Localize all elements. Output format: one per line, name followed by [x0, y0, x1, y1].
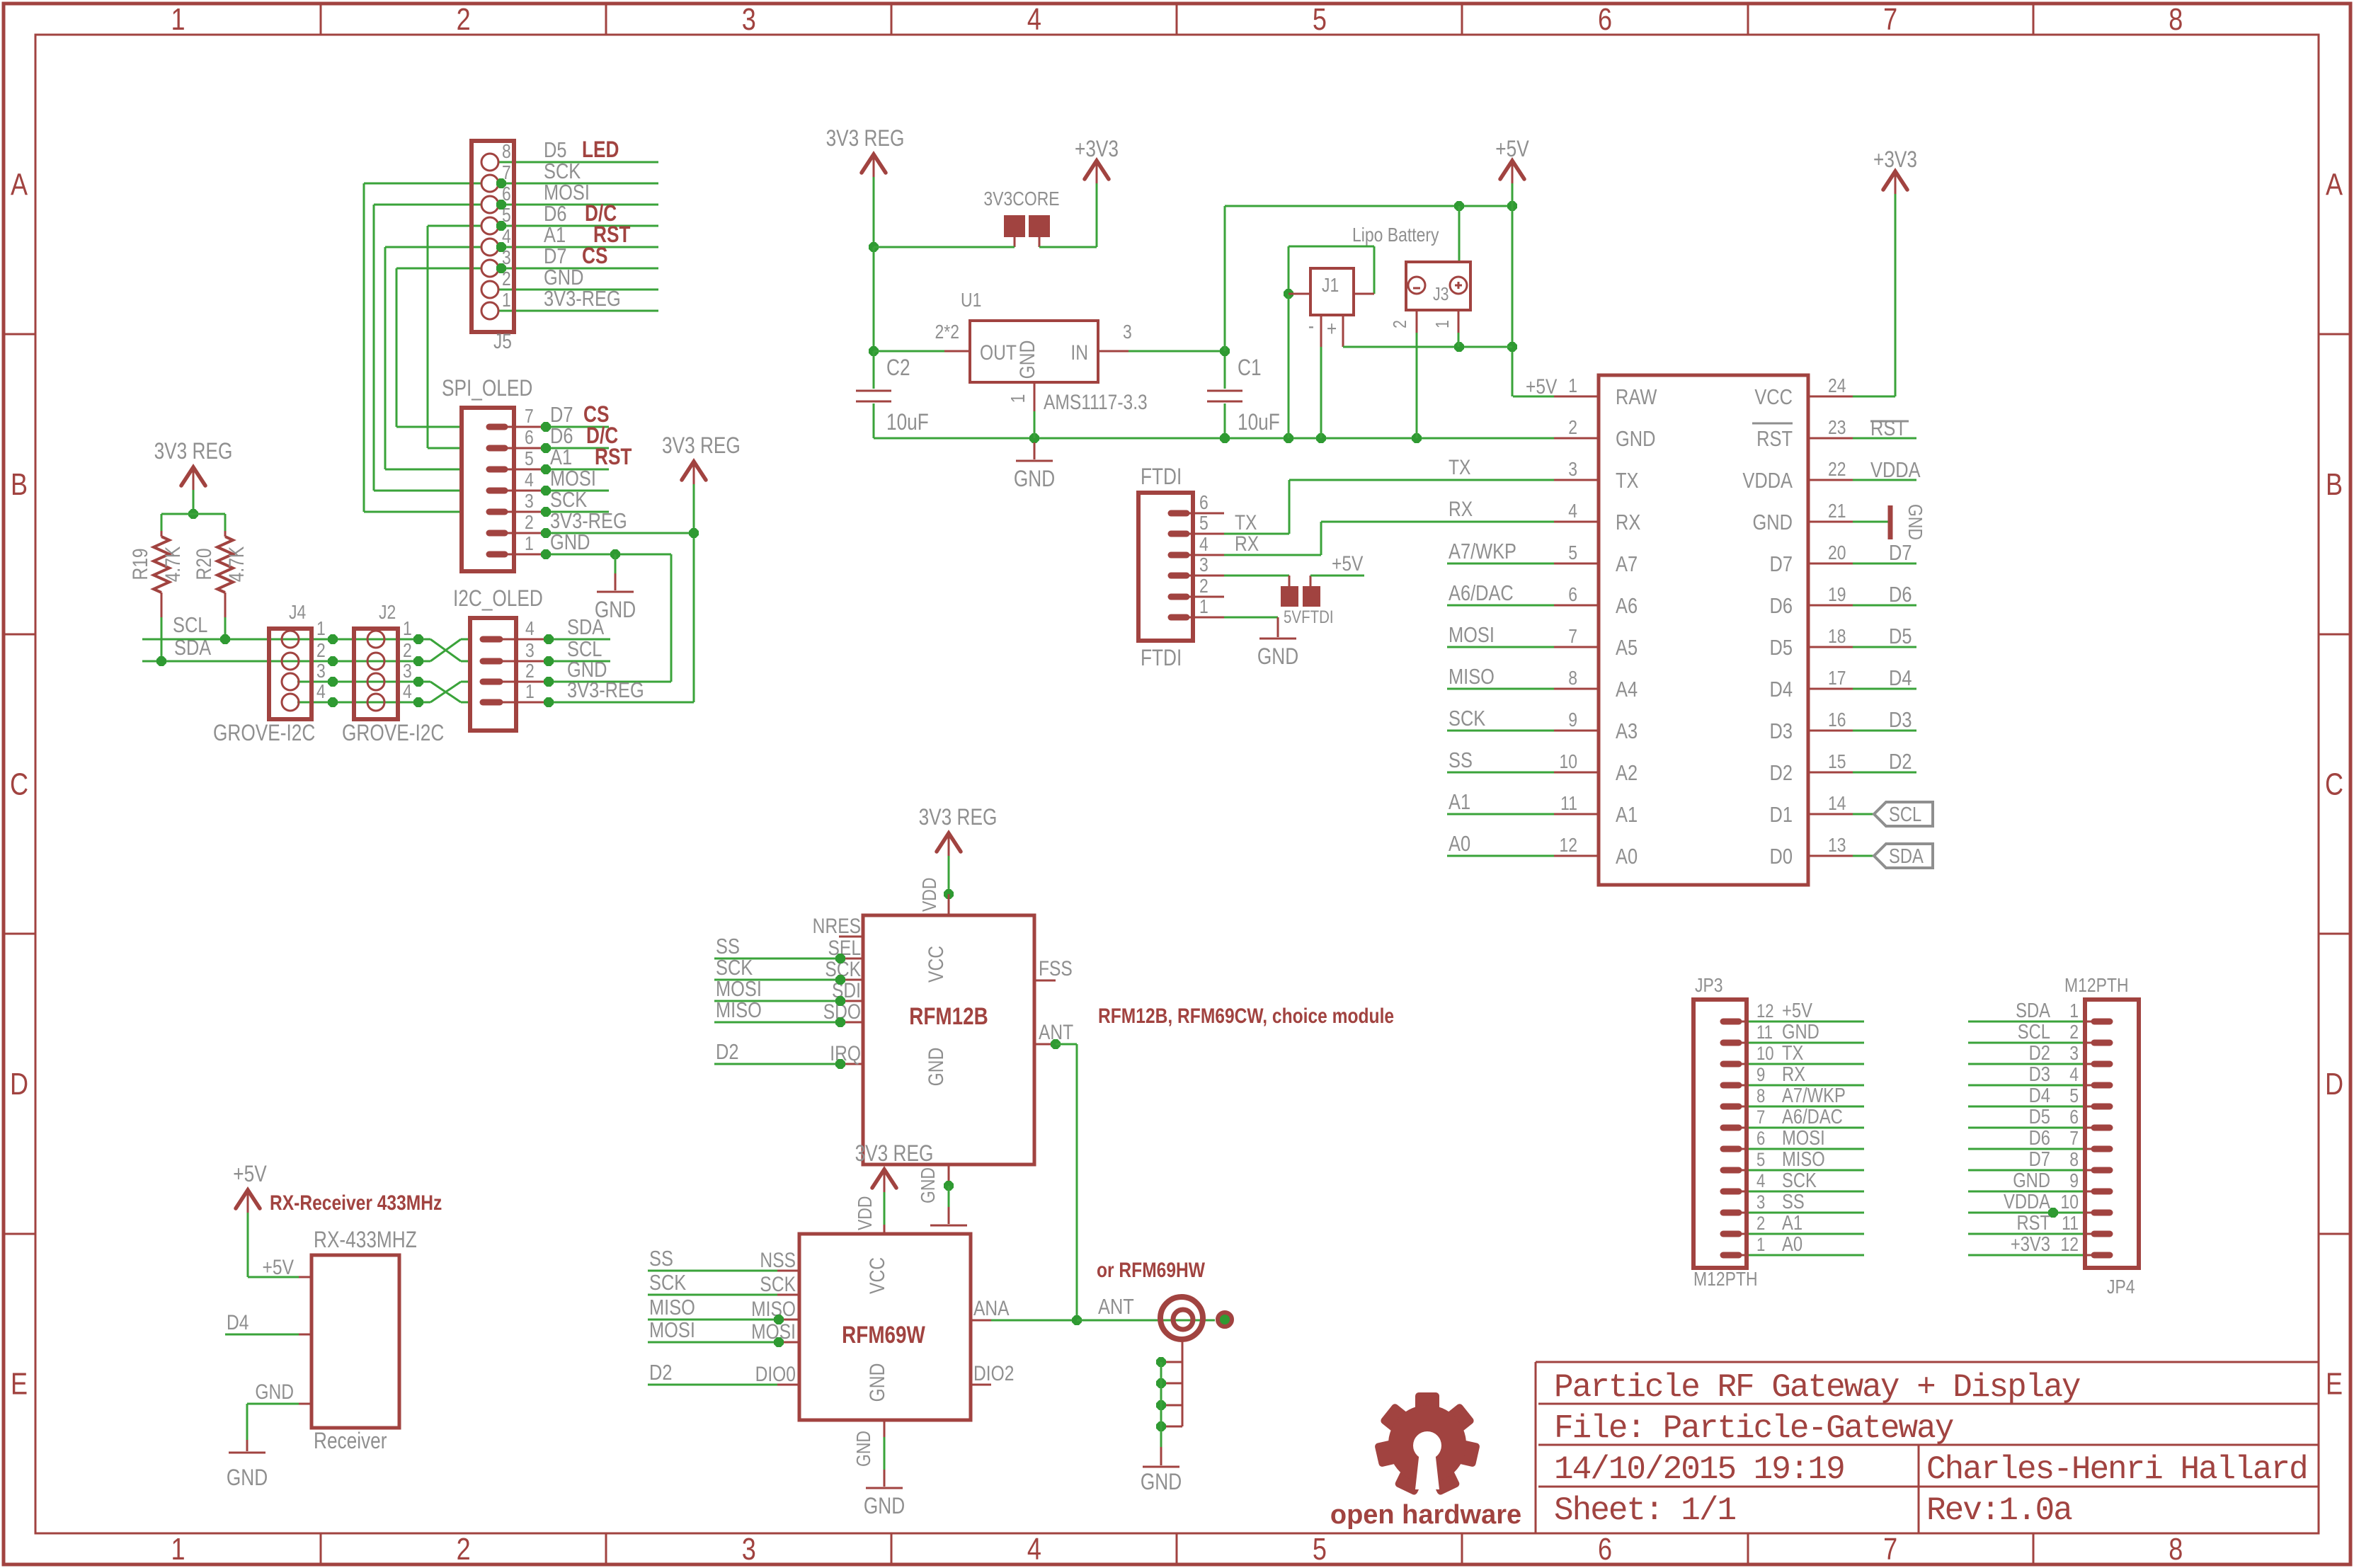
svg-text:-: - [1308, 314, 1314, 338]
svg-text:B: B [2326, 467, 2343, 502]
svg-text:5: 5 [1568, 542, 1577, 564]
svg-text:RX: RX [1616, 510, 1640, 535]
svg-text:Rev:1.0a: Rev:1.0a [1926, 1492, 2072, 1529]
svg-text:C1: C1 [1238, 356, 1262, 381]
svg-text:VDD: VDD [855, 1196, 876, 1230]
svg-text:GND: GND [1782, 1020, 1819, 1043]
svg-text:6: 6 [1199, 492, 1209, 514]
svg-text:D5: D5 [1770, 636, 1793, 660]
svg-text:SCL: SCL [2018, 1020, 2050, 1043]
svg-text:RX: RX [1235, 532, 1259, 556]
svg-text:J5: J5 [493, 329, 512, 353]
svg-text:6: 6 [525, 427, 534, 449]
svg-text:2: 2 [1390, 320, 1411, 328]
svg-text:DIO2: DIO2 [973, 1361, 1014, 1385]
svg-text:10: 10 [1559, 751, 1577, 773]
svg-text:RX: RX [1449, 497, 1473, 521]
svg-text:21: 21 [1828, 500, 1846, 522]
svg-text:GND: GND [1014, 467, 1055, 492]
svg-text:4: 4 [2069, 1064, 2079, 1086]
svg-text:Charles-Henri Hallard: Charles-Henri Hallard [1926, 1451, 2307, 1488]
svg-text:+5V: +5V [1526, 374, 1558, 399]
svg-text:3V3CORE: 3V3CORE [983, 188, 1059, 210]
svg-text:AMS1117-3.3: AMS1117-3.3 [1044, 390, 1148, 414]
svg-text:22: 22 [1828, 459, 1846, 481]
svg-text:RST: RST [1870, 416, 1907, 441]
svg-text:D4: D4 [1770, 677, 1793, 702]
svg-text:VCC: VCC [924, 946, 948, 983]
svg-text:1: 1 [525, 681, 535, 703]
svg-text:DIO0: DIO0 [755, 1362, 796, 1386]
svg-text:8: 8 [1756, 1086, 1765, 1107]
svg-text:A4: A4 [1616, 677, 1638, 702]
svg-text:1: 1 [171, 2, 185, 37]
svg-text:U1: U1 [961, 290, 981, 311]
svg-text:7: 7 [1883, 2, 1897, 37]
svg-text:7: 7 [1883, 1532, 1897, 1567]
svg-text:3V3-REG: 3V3-REG [544, 287, 621, 311]
svg-text:D1: D1 [1770, 803, 1793, 828]
svg-text:8: 8 [1568, 668, 1577, 689]
svg-text:D0: D0 [1770, 845, 1793, 869]
svg-text:D6: D6 [1770, 594, 1793, 619]
svg-text:File: Particle-Gateway: File: Particle-Gateway [1554, 1410, 1954, 1447]
svg-text:SDA: SDA [567, 615, 604, 640]
svg-text:GND: GND [865, 1363, 889, 1402]
svg-text:7: 7 [1568, 626, 1577, 648]
svg-text:24: 24 [1828, 375, 1846, 397]
svg-text:11: 11 [1756, 1022, 1773, 1043]
svg-text:SCK: SCK [649, 1271, 686, 1295]
svg-text:+5V: +5V [233, 1162, 267, 1187]
svg-text:M12PTH: M12PTH [1693, 1269, 1758, 1291]
svg-text:10: 10 [1756, 1043, 1774, 1065]
svg-text:5: 5 [1756, 1150, 1765, 1171]
svg-text:RX-Receiver 433MHz: RX-Receiver 433MHz [270, 1191, 442, 1215]
svg-text:SCK: SCK [1782, 1169, 1817, 1192]
svg-text:Lipo Battery: Lipo Battery [1352, 224, 1439, 246]
svg-text:7: 7 [1756, 1107, 1765, 1128]
svg-text:D: D [10, 1067, 28, 1101]
svg-text:1: 1 [403, 618, 412, 640]
svg-text:VCC: VCC [1754, 385, 1793, 410]
svg-text:GND: GND [255, 1380, 294, 1404]
svg-text:J1: J1 [1322, 275, 1339, 297]
svg-text:3: 3 [525, 640, 535, 662]
svg-text:RFM12B, RFM69CW, choice module: RFM12B, RFM69CW, choice module [1098, 1004, 1394, 1028]
svg-text:A6/DAC: A6/DAC [1782, 1105, 1843, 1128]
svg-text:11: 11 [1560, 793, 1577, 815]
svg-text:MISO: MISO [1782, 1148, 1825, 1171]
svg-text:Receiver: Receiver [314, 1429, 387, 1454]
svg-text:RST: RST [1756, 427, 1793, 452]
svg-text:I2C_OLED: I2C_OLED [453, 587, 543, 612]
svg-text:2: 2 [525, 512, 534, 534]
svg-text:1: 1 [525, 533, 534, 555]
svg-text:GND: GND [550, 530, 590, 555]
svg-text:3V3-REG: 3V3-REG [567, 678, 644, 703]
svg-text:3V3 REG: 3V3 REG [826, 127, 905, 151]
svg-text:12: 12 [2060, 1234, 2079, 1256]
svg-text:VDD: VDD [919, 878, 941, 912]
svg-text:LED: LED [582, 138, 619, 163]
svg-text:23: 23 [1828, 417, 1846, 439]
svg-text:E: E [2326, 1366, 2343, 1401]
svg-text:GND: GND [1141, 1470, 1182, 1495]
svg-text:3V3 REG: 3V3 REG [154, 440, 233, 464]
svg-text:VDDA: VDDA [2004, 1190, 2050, 1213]
svg-text:3: 3 [742, 1532, 756, 1567]
svg-text:A1: A1 [1616, 803, 1638, 828]
svg-text:1: 1 [1568, 375, 1577, 397]
svg-text:12: 12 [1756, 1001, 1774, 1022]
svg-text:GROVE-I2C: GROVE-I2C [342, 721, 444, 746]
svg-text:A0: A0 [1782, 1232, 1802, 1256]
svg-text:7: 7 [2069, 1128, 2079, 1150]
svg-text:4: 4 [1027, 1532, 1041, 1567]
svg-text:D6: D6 [2029, 1126, 2050, 1150]
svg-text:A3: A3 [1616, 719, 1638, 744]
svg-text:D3: D3 [1770, 719, 1793, 744]
svg-text:5: 5 [2069, 1085, 2079, 1107]
svg-text:10uF: 10uF [886, 411, 929, 435]
svg-text:TX: TX [1616, 469, 1639, 493]
svg-text:2: 2 [1199, 576, 1209, 597]
svg-text:1: 1 [1756, 1235, 1765, 1256]
svg-text:MOSI: MOSI [751, 1320, 796, 1344]
svg-text:NRES: NRES [813, 914, 861, 938]
svg-text:9: 9 [1568, 709, 1577, 731]
svg-text:10: 10 [2060, 1191, 2079, 1213]
svg-text:D7: D7 [1770, 552, 1793, 577]
svg-text:3V3 REG: 3V3 REG [919, 806, 998, 830]
svg-text:RX-433MHZ: RX-433MHZ [314, 1228, 417, 1253]
svg-text:GROVE-I2C: GROVE-I2C [213, 721, 315, 746]
svg-text:GND: GND [2013, 1169, 2050, 1192]
svg-text:C: C [2325, 767, 2343, 801]
svg-text:1: 1 [1199, 596, 1209, 618]
svg-text:D7: D7 [1889, 541, 1912, 566]
svg-text:+5V: +5V [263, 1255, 295, 1279]
svg-text:5: 5 [1313, 1532, 1327, 1567]
svg-text:A0: A0 [1449, 832, 1470, 857]
svg-text:+: + [1327, 316, 1337, 341]
svg-text:D2: D2 [649, 1361, 672, 1385]
svg-text:2: 2 [316, 640, 326, 662]
svg-text:MOSI: MOSI [1782, 1126, 1825, 1150]
svg-text:GND: GND [1015, 341, 1039, 379]
svg-text:D4: D4 [1889, 666, 1912, 691]
svg-text:or RFM69HW: or RFM69HW [1097, 1258, 1205, 1282]
svg-text:FTDI: FTDI [1141, 465, 1182, 490]
svg-text:D4: D4 [227, 1310, 248, 1334]
svg-text:FSS: FSS [1039, 956, 1073, 980]
svg-text:A2: A2 [1616, 761, 1638, 786]
svg-text:9: 9 [2069, 1170, 2079, 1192]
svg-text:19: 19 [1828, 584, 1846, 606]
svg-text:D2: D2 [1889, 750, 1912, 774]
svg-text:J2: J2 [379, 602, 396, 624]
svg-text:MISO: MISO [1449, 665, 1495, 689]
svg-text:E: E [11, 1366, 28, 1401]
svg-text:SDA: SDA [1889, 845, 1924, 868]
svg-text:1: 1 [1432, 320, 1453, 328]
svg-text:13: 13 [1828, 835, 1846, 857]
svg-text:2*2: 2*2 [935, 321, 959, 343]
svg-text:D2: D2 [716, 1040, 738, 1065]
svg-text:1: 1 [502, 290, 511, 311]
svg-text:D4: D4 [2029, 1084, 2050, 1107]
svg-text:D3: D3 [2029, 1063, 2050, 1086]
svg-text:J4: J4 [289, 602, 306, 624]
svg-text:14/10/2015 19:19: 14/10/2015 19:19 [1554, 1451, 1844, 1488]
svg-text:2: 2 [1568, 417, 1577, 439]
svg-text:8: 8 [2169, 2, 2183, 37]
svg-text:18: 18 [1828, 626, 1846, 648]
svg-text:6: 6 [1568, 584, 1577, 606]
svg-text:R19: R19 [128, 548, 152, 580]
svg-text:3: 3 [1199, 554, 1209, 576]
svg-text:20: 20 [1828, 542, 1846, 564]
svg-text:ANT: ANT [1098, 1295, 1134, 1320]
svg-text:5: 5 [1313, 2, 1327, 37]
svg-text:11: 11 [2062, 1213, 2079, 1235]
svg-text:MOSI: MOSI [649, 1318, 695, 1343]
svg-text:SS: SS [649, 1247, 673, 1271]
svg-text:SS: SS [1782, 1190, 1805, 1213]
svg-text:A7/WKP: A7/WKP [1782, 1084, 1846, 1107]
svg-text:6: 6 [1598, 1532, 1612, 1567]
svg-text:4: 4 [1568, 500, 1577, 522]
svg-text:MISO: MISO [716, 998, 762, 1023]
svg-text:MISO: MISO [649, 1295, 695, 1320]
svg-text:3V3 REG: 3V3 REG [855, 1142, 934, 1167]
svg-text:1: 1 [316, 618, 326, 640]
svg-text:J3: J3 [1433, 284, 1449, 305]
svg-text:A5: A5 [1616, 636, 1638, 660]
svg-text:SCK: SCK [1449, 706, 1485, 731]
svg-text:4: 4 [1027, 2, 1041, 37]
svg-text:SCL: SCL [1889, 803, 1921, 826]
svg-text:D5: D5 [2029, 1105, 2050, 1128]
svg-text:A1: A1 [1449, 790, 1470, 815]
svg-text:3: 3 [1123, 321, 1132, 343]
svg-text:7: 7 [525, 406, 534, 428]
svg-text:2: 2 [457, 1532, 471, 1567]
svg-text:4.7K: 4.7K [161, 546, 185, 583]
svg-text:Particle RF Gateway + Display: Particle RF Gateway + Display [1554, 1369, 2081, 1406]
svg-text:GND: GND [1753, 510, 1793, 535]
svg-text:+5V: +5V [1332, 551, 1364, 576]
svg-text:9: 9 [1756, 1065, 1765, 1086]
svg-text:A6: A6 [1616, 594, 1638, 619]
svg-text:4: 4 [1756, 1171, 1765, 1192]
svg-text:JP3: JP3 [1695, 975, 1723, 997]
svg-text:RST: RST [2016, 1211, 2050, 1235]
svg-text:RX: RX [1782, 1063, 1805, 1086]
svg-text:A6/DAC: A6/DAC [1449, 581, 1514, 606]
svg-text:OUT: OUT [980, 341, 1017, 365]
svg-text:3: 3 [2069, 1043, 2079, 1065]
svg-text:NSS: NSS [760, 1248, 796, 1272]
svg-text:1: 1 [1007, 394, 1029, 404]
svg-text:SS: SS [1449, 748, 1473, 773]
svg-text:6: 6 [1756, 1128, 1765, 1150]
svg-text:A7/WKP: A7/WKP [1449, 539, 1516, 564]
svg-text:A: A [2326, 167, 2343, 202]
svg-text:GND: GND [227, 1466, 268, 1491]
svg-text:D: D [2325, 1067, 2343, 1101]
svg-text:5: 5 [1199, 513, 1209, 534]
svg-text:A: A [11, 167, 28, 202]
svg-text:SPI_OLED: SPI_OLED [442, 377, 532, 401]
svg-text:GND: GND [1904, 504, 1926, 540]
svg-text:VCC: VCC [865, 1257, 889, 1294]
svg-text:8: 8 [2169, 1532, 2183, 1567]
svg-text:GND: GND [1257, 645, 1298, 670]
svg-text:C: C [10, 767, 28, 801]
svg-text:5: 5 [525, 448, 534, 470]
svg-text:C2: C2 [886, 356, 910, 381]
svg-text:17: 17 [1828, 668, 1846, 689]
svg-text:1: 1 [2069, 1000, 2079, 1022]
svg-text:3V3 REG: 3V3 REG [662, 434, 741, 459]
svg-text:R20: R20 [192, 548, 216, 580]
svg-text:4: 4 [525, 618, 535, 640]
svg-text:B: B [11, 467, 28, 502]
svg-text:3: 3 [742, 2, 756, 37]
svg-text:JP4: JP4 [2107, 1276, 2135, 1298]
svg-text:MOSI: MOSI [1449, 623, 1495, 648]
svg-text:GND: GND [918, 1167, 939, 1203]
svg-text:D3: D3 [1889, 708, 1912, 733]
svg-text:14: 14 [1828, 793, 1846, 815]
svg-text:+3V3: +3V3 [2011, 1232, 2050, 1256]
svg-text:ANA: ANA [973, 1296, 1010, 1320]
svg-text:A0: A0 [1616, 845, 1638, 869]
svg-text:3: 3 [525, 491, 534, 513]
svg-text:RAW: RAW [1616, 385, 1657, 410]
svg-text:D7: D7 [2029, 1148, 2050, 1171]
svg-text:2: 2 [2069, 1022, 2079, 1043]
svg-text:3: 3 [403, 660, 412, 682]
svg-text:8: 8 [2069, 1149, 2079, 1171]
svg-text:CS: CS [582, 244, 607, 269]
svg-text:GND: GND [853, 1431, 875, 1467]
svg-text:GND: GND [1616, 427, 1655, 452]
svg-text:MISO: MISO [751, 1297, 796, 1321]
svg-text:IN: IN [1070, 341, 1088, 365]
svg-text:3: 3 [1568, 459, 1577, 481]
svg-text:12: 12 [1559, 835, 1577, 857]
svg-text:FTDI: FTDI [1141, 646, 1182, 671]
svg-text:A1: A1 [1782, 1211, 1802, 1235]
svg-text:4: 4 [403, 681, 412, 703]
svg-text:IRQ: IRQ [830, 1041, 861, 1065]
svg-text:open hardware: open hardware [1330, 1500, 1521, 1530]
svg-text:TX: TX [1782, 1041, 1804, 1065]
svg-text:8: 8 [502, 141, 511, 163]
svg-text:SCL: SCL [173, 613, 207, 638]
svg-text:GND: GND [864, 1494, 905, 1519]
svg-text:Sheet: 1/1: Sheet: 1/1 [1554, 1492, 1735, 1529]
svg-text:16: 16 [1828, 709, 1846, 731]
svg-text:5VFTDI: 5VFTDI [1284, 607, 1334, 626]
svg-text:RFM12B: RFM12B [909, 1002, 988, 1029]
svg-text:D5: D5 [1889, 624, 1912, 649]
svg-text:VDDA: VDDA [1870, 458, 1921, 483]
svg-text:4: 4 [1199, 534, 1209, 556]
svg-text:SDA: SDA [2016, 999, 2050, 1022]
svg-text:GND: GND [924, 1048, 948, 1087]
svg-text:M12PTH: M12PTH [2064, 975, 2129, 997]
svg-text:3: 3 [1756, 1192, 1765, 1213]
svg-text:SCK: SCK [760, 1272, 796, 1296]
svg-text:2: 2 [1756, 1213, 1765, 1235]
svg-text:TX: TX [1235, 510, 1257, 534]
svg-text:3: 3 [316, 660, 326, 682]
svg-text:10uF: 10uF [1238, 411, 1280, 435]
svg-text:6: 6 [2069, 1106, 2079, 1128]
svg-text:+5V: +5V [1782, 999, 1812, 1022]
svg-text:D2: D2 [1770, 761, 1793, 786]
svg-text:D2: D2 [2029, 1041, 2050, 1065]
svg-text:RST: RST [595, 445, 632, 470]
svg-text:VDDA: VDDA [1742, 469, 1793, 493]
svg-text:D6: D6 [1889, 583, 1912, 607]
svg-text:4.7K: 4.7K [224, 546, 248, 583]
svg-text:RFM69W: RFM69W [842, 1321, 925, 1348]
svg-text:2: 2 [525, 660, 535, 682]
svg-text:2: 2 [403, 640, 412, 662]
svg-text:4: 4 [525, 469, 534, 491]
svg-text:4: 4 [316, 681, 326, 703]
svg-text:2: 2 [457, 2, 471, 37]
svg-text:6: 6 [1598, 2, 1612, 37]
svg-text:1: 1 [171, 1532, 185, 1567]
svg-text:15: 15 [1828, 751, 1846, 773]
svg-text:TX: TX [1449, 455, 1470, 479]
svg-text:A7: A7 [1616, 552, 1638, 577]
